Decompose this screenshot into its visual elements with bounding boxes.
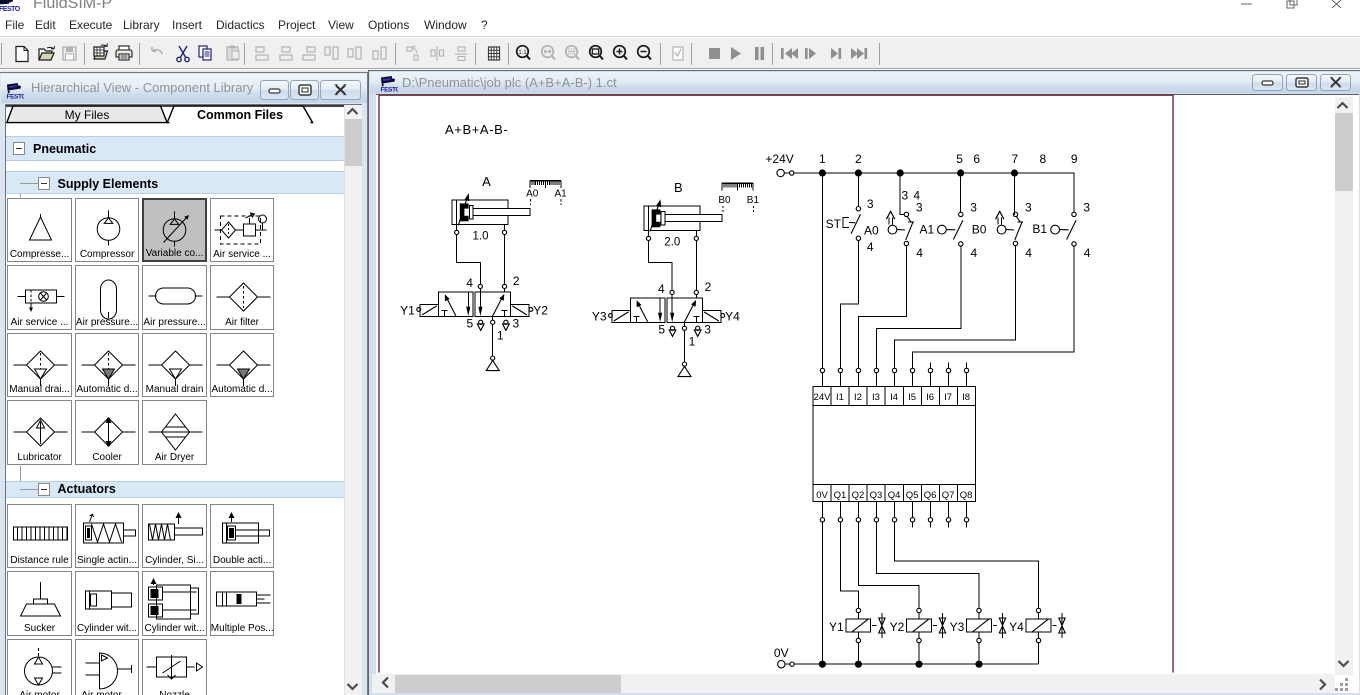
solenoid pilot Y4 (right) [702, 309, 740, 323]
exhaust port 3 [503, 320, 510, 330]
label A1 [920, 223, 935, 237]
svg-text:FESTO: FESTO [0, 6, 21, 13]
svg-text:FESTO: FESTO [7, 94, 25, 101]
label B1 [1032, 222, 1047, 236]
solenoid valve coil Y1 [829, 608, 871, 664]
valve A port 4 terminal [478, 284, 482, 292]
exhaust port 5 [669, 326, 676, 336]
solenoid pilot Y1 (left) [400, 303, 438, 317]
junction dots on 0V rail [819, 661, 983, 668]
tabs [6, 105, 361, 129]
solenoid valve coil Y3 [950, 608, 992, 664]
valve symbol marker of coil Y3 [993, 613, 1006, 638]
valve B port 2 terminal [694, 290, 698, 298]
panel scrollbar [344, 105, 362, 695]
PLC input terminal circles [820, 362, 969, 386]
limit switch A0 (with roller arrow, opener contact) [886, 173, 923, 260]
+24V supply terminal [765, 152, 794, 177]
limit switch B0 (with roller arrow, opener contact) [996, 173, 1033, 260]
wire cylinder B left port to valve port 4 [649, 241, 673, 291]
PLC controller box with input row 24V I1-I8 and output row 0V Q1-Q8 [813, 386, 976, 501]
wire B0 to PLC input I4 [895, 246, 1016, 369]
5/2-way double solenoid valve Y3/Y4 [630, 298, 702, 322]
net number labels above +24V rail [819, 152, 1078, 203]
menu bar [0, 14, 1360, 37]
PLC output terminal circles [820, 502, 969, 528]
svg-text:FESTO: FESTO [381, 87, 399, 94]
0V supply terminal [774, 646, 794, 668]
wire Q4 to relay coil Y4 [895, 522, 1039, 608]
valve B port 4 terminal [670, 290, 674, 298]
circuit title text A+B+A-B- [445, 122, 508, 137]
wire Q3 to relay coil Y3 [876, 522, 979, 608]
wire B1 to PLC input I5 [913, 246, 1075, 368]
port 1 connection and compressed air source [486, 316, 499, 370]
distance ruler for cylinder B with labels B0 B1 [718, 183, 759, 212]
app title bar [0, 0, 1360, 14]
cylinder 1.0 (A) double-acting with magnetic piston [452, 174, 530, 242]
wire 24V column to PLC 24V input [821, 173, 823, 368]
exhaust port 3 [694, 326, 701, 336]
5/2-way double solenoid valve Y1/Y2 [439, 292, 511, 316]
wire cylinder A left port to valve port 4 [457, 235, 481, 285]
junction dots on +24V rail [819, 169, 1018, 176]
exhaust port 5 [477, 320, 484, 330]
valve symbol marker of coil Y1 [872, 613, 885, 638]
switch contact B1 (normally open) [1051, 201, 1091, 260]
wire cylinder A right port to valve port 2 [504, 235, 506, 285]
wire Q2 to relay coil Y2 [858, 522, 919, 608]
toolbar [0, 38, 1360, 69]
valve symbol marker of coil Y2 [933, 613, 946, 638]
solenoid pilot Y3 (left) [592, 309, 630, 323]
label A0 [864, 223, 879, 237]
svg-text:My Files: My Files [65, 108, 110, 122]
wire Q1 to relay coil Y1 [840, 522, 858, 608]
distance ruler for cylinder A with labels A0 A1 [526, 181, 567, 206]
wire A0 to PLC input I2 [858, 246, 906, 369]
solenoid pilot Y2 (right) [511, 303, 549, 317]
wire PLC 0V output to 0V rail [821, 522, 823, 664]
page border (drawing frame) [379, 95, 1173, 672]
solenoid valve coil Y2 [890, 608, 932, 664]
+24V rail wire [794, 173, 1074, 212]
solenoid valve coil Y4 [1009, 608, 1051, 664]
wire ST to PLC input I1 [840, 241, 858, 369]
wire A1 to PLC input I3 [876, 246, 960, 368]
svg-text:1:1: 1:1 [518, 50, 527, 56]
valve port labels 4 2 5 1 3 [658, 280, 712, 348]
wire rail to A1 contact [960, 173, 962, 212]
pushbutton switch ST (normally open) [826, 173, 874, 254]
svg-text:Common Files: Common Files [197, 108, 283, 122]
port 1 connection and compressed air source [678, 322, 691, 376]
wire cylinder B right port to valve port 2 [695, 241, 697, 291]
valve port labels 4 2 5 1 3 [466, 274, 520, 342]
label B0 [972, 223, 987, 237]
valve symbol marker of coil Y4 [1052, 613, 1065, 638]
valve A port 2 terminal [502, 284, 506, 292]
0V rail wire [794, 663, 1038, 665]
switch contact A1 (normally open) [938, 201, 978, 260]
vertical scrollbar [1335, 97, 1353, 675]
cylinder 2.0 (B) double-acting with magnetic piston [644, 180, 722, 248]
